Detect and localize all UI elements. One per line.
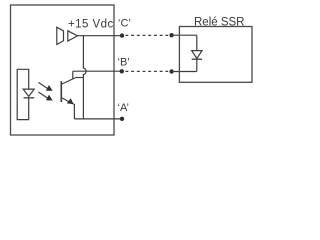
SSR diode D2	[192, 51, 202, 59]
SSR relay box	[179, 27, 252, 83]
node C dot	[120, 33, 124, 37]
wire into SSR box bottom	[172, 71, 197, 73]
node B dot	[120, 69, 124, 73]
wire emitter to terminal A	[74, 118, 120, 120]
SSR input diode wire bottom	[196, 59, 198, 71]
wire dashed C to SSR	[126, 34, 170, 36]
LED cathode bar	[24, 97, 35, 99]
wire +15V rail to terminal C	[78, 35, 121, 37]
wire dashed B to SSR	[126, 70, 170, 72]
wire branch to collector	[76, 77, 84, 79]
svg-text:+15 Vdc: +15 Vdc	[68, 19, 114, 31]
node dot at SSR side B	[169, 69, 173, 73]
wire B drop to collector	[72, 71, 74, 79]
phototransistor emitter	[62, 98, 74, 119]
node A dot	[120, 117, 124, 121]
light arrow 2	[38, 92, 52, 101]
emitter arrowhead	[67, 98, 74, 104]
optocoupler LED loop	[17, 69, 29, 119]
PLC enclosure box	[11, 5, 115, 135]
wire B terminal line	[73, 70, 120, 72]
svg-text:‘C’: ‘C’	[118, 18, 131, 30]
SSR input diode wire top	[196, 35, 198, 50]
SSR diode cathode bar	[192, 58, 202, 60]
svg-text:‘A’: ‘A’	[118, 102, 129, 114]
phototransistor collector	[62, 78, 76, 85]
node dot at SSR side C	[169, 33, 173, 37]
wire into SSR box top	[172, 34, 197, 36]
phototransistor base bar	[60, 81, 62, 102]
svg-text:‘B’: ‘B’	[118, 57, 130, 69]
power supply symbol trapezoid	[57, 27, 64, 44]
svg-text:Relé SSR: Relé SSR	[194, 17, 245, 29]
LED diode D1	[23, 89, 34, 96]
driver triangle	[68, 31, 78, 41]
light arrow 1	[38, 82, 52, 91]
wire collector drop from +15V rail with hop over B wire, down to A wire	[83, 36, 86, 119]
